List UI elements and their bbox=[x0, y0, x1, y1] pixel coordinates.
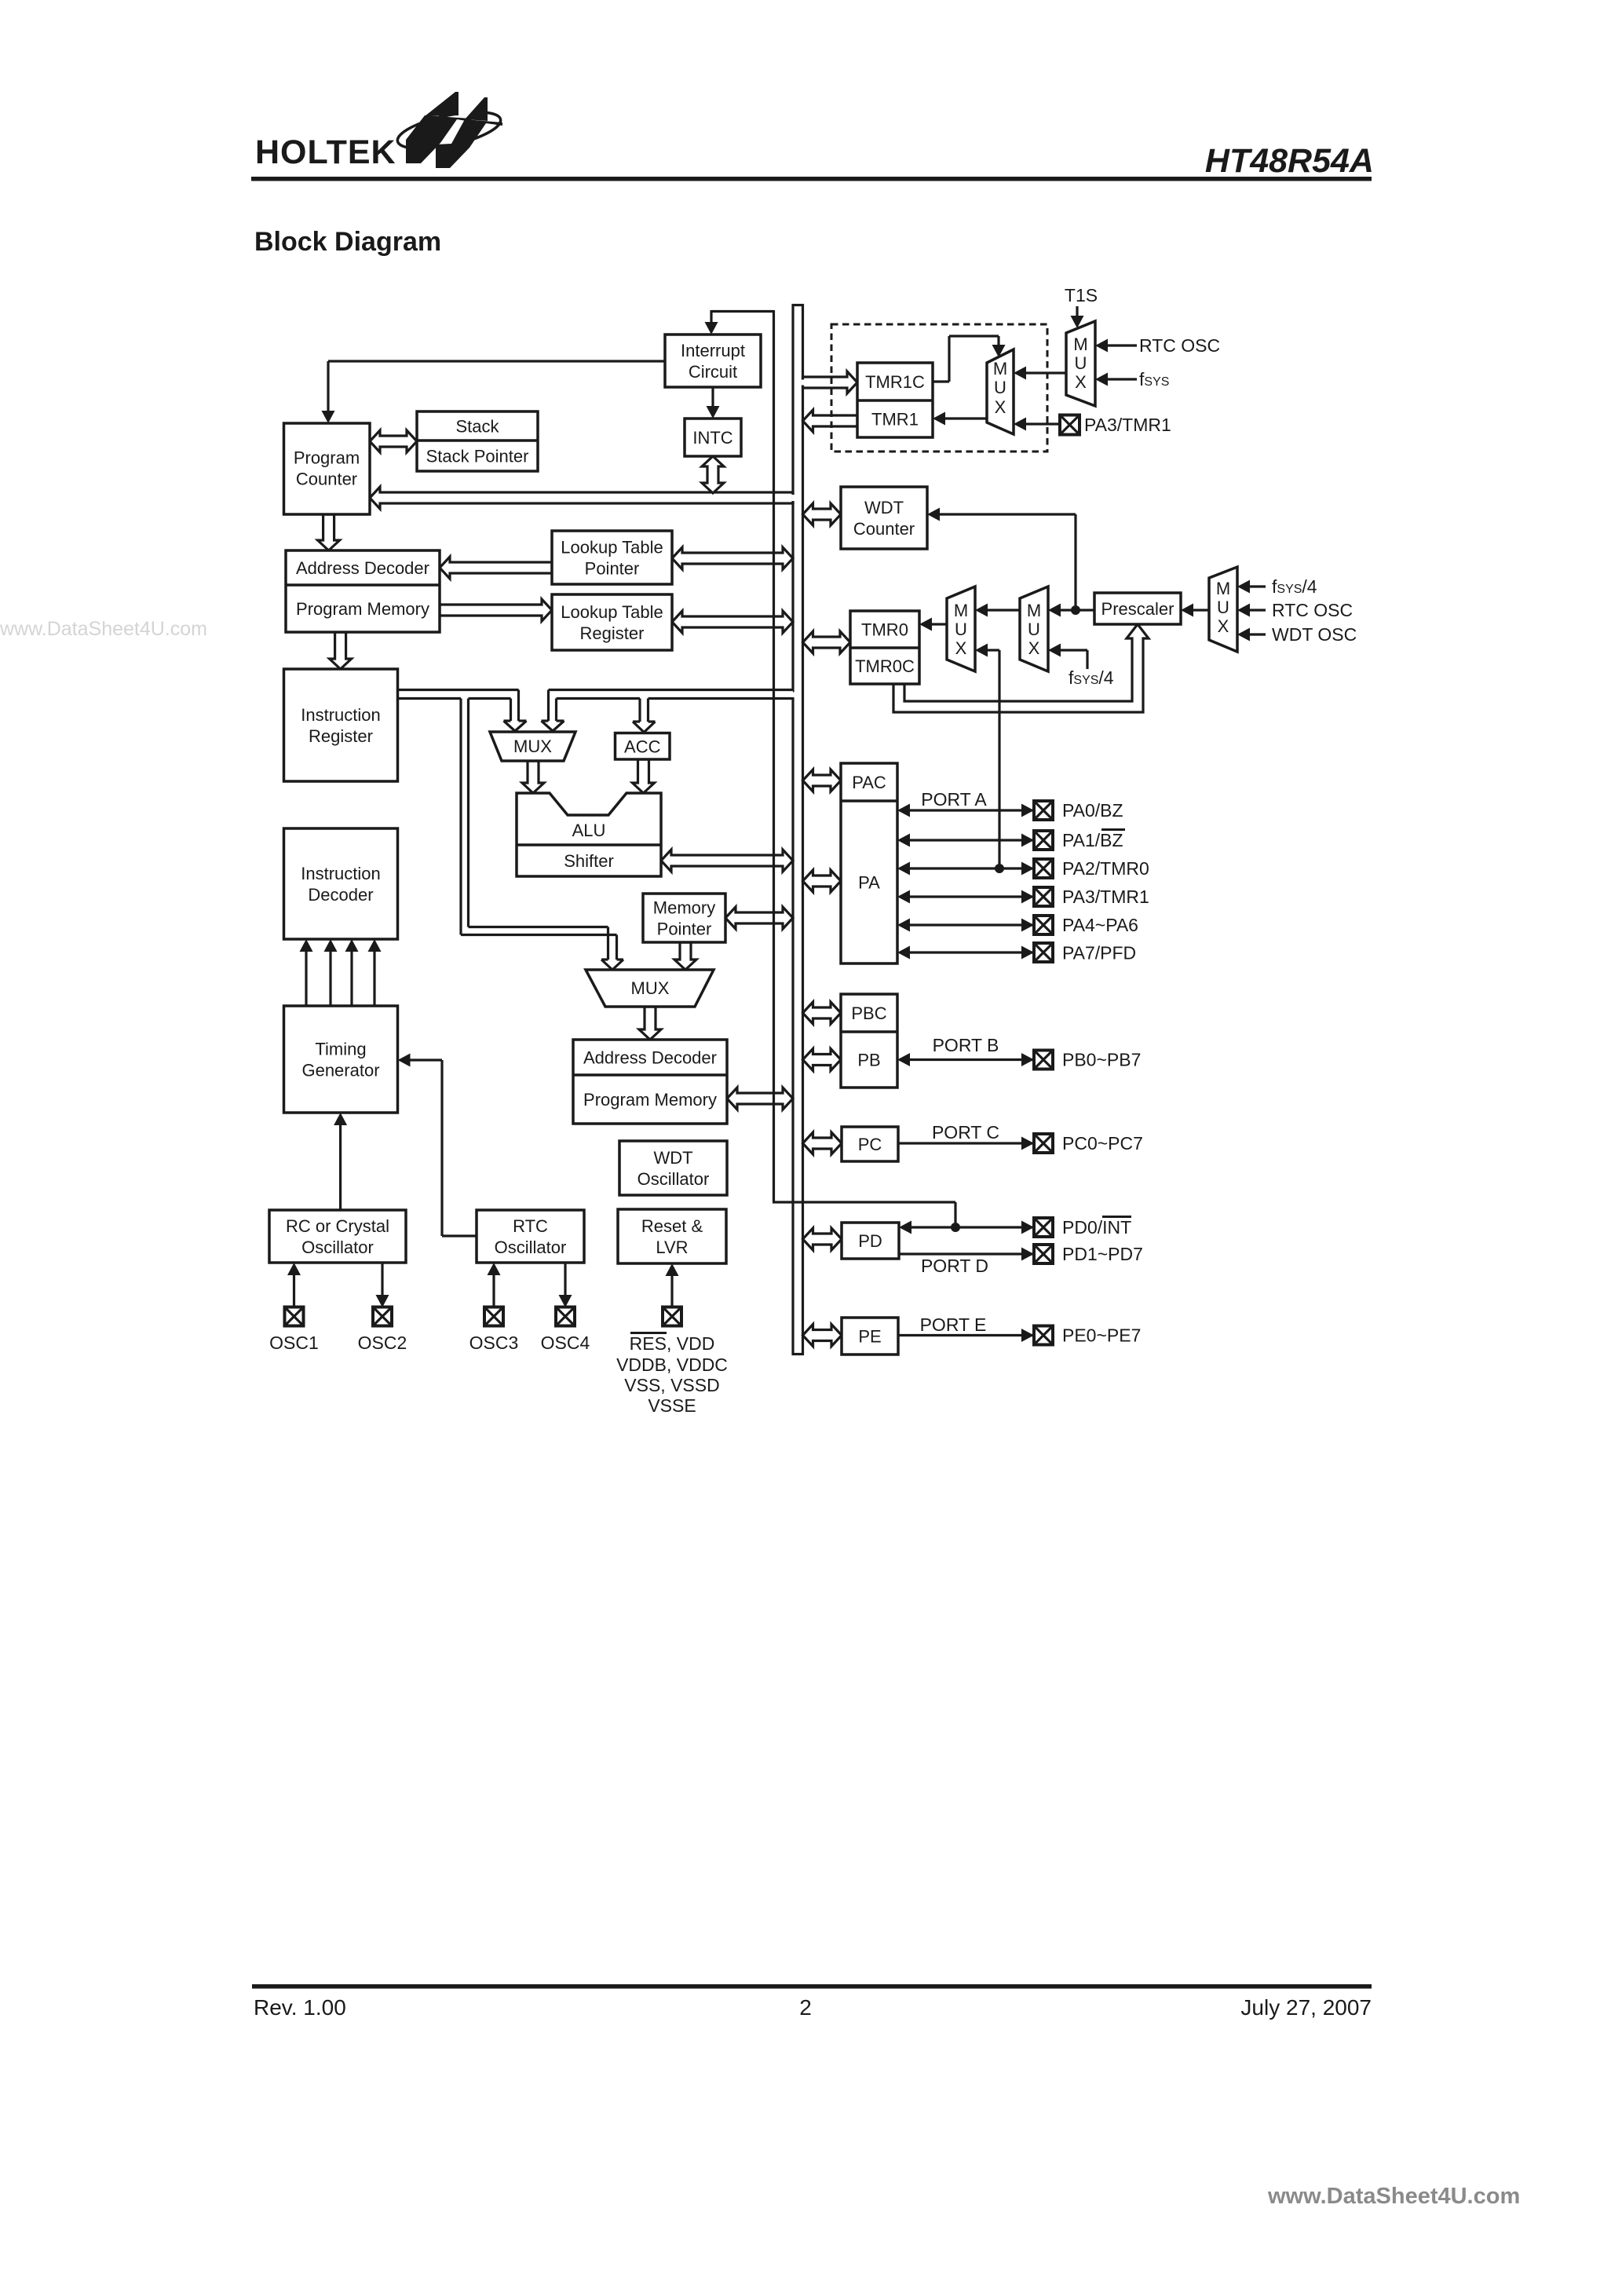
svg-text:PB: PB bbox=[857, 1051, 880, 1070]
junction dot prescaler output bbox=[1071, 605, 1080, 615]
svg-text:PD0/INT: PD0/INT bbox=[1062, 1217, 1131, 1238]
block RTC Oscillator bbox=[477, 1210, 584, 1263]
bus wire TMR1 to bus bbox=[803, 410, 858, 432]
svg-text:Program Memory: Program Memory bbox=[583, 1090, 717, 1110]
svg-text:PA1/BZ: PA1/BZ bbox=[1062, 830, 1123, 850]
wire interrupt circuit to INTC bbox=[711, 387, 714, 407]
svg-text:M: M bbox=[1073, 335, 1087, 354]
wire RTC oscillator to timing generator bbox=[442, 1234, 477, 1237]
svg-text:HT48R54A: HT48R54A bbox=[1205, 142, 1374, 180]
wire TMR1C to MUX input bbox=[933, 380, 949, 382]
wire line A to PD junction bbox=[773, 1201, 955, 1203]
bus wire bus to WDT Counter bbox=[803, 503, 842, 525]
block ACC bbox=[616, 733, 670, 760]
pad OSC1 bbox=[285, 1307, 304, 1326]
svg-text:PORT D: PORT D bbox=[921, 1256, 988, 1276]
svg-text:RTC: RTC bbox=[513, 1216, 548, 1236]
block TMR0 and TMR0C bbox=[850, 611, 919, 684]
svg-text:OSC4: OSC4 bbox=[541, 1333, 590, 1353]
bus wire Lookup Table Register to bus bbox=[672, 611, 793, 633]
svg-text:Lookup Table: Lookup Table bbox=[561, 602, 663, 622]
svg-text:WDT OSC: WDT OSC bbox=[1272, 624, 1357, 645]
wire RTC OSC to T1S MUX bbox=[1107, 344, 1137, 346]
svg-text:RTC OSC: RTC OSC bbox=[1272, 600, 1353, 620]
bus wire Program Counter to Stack bbox=[370, 430, 417, 452]
block WDT Oscillator bbox=[619, 1141, 727, 1195]
block Lookup Table Pointer bbox=[552, 531, 672, 584]
label RES VDD power pins bbox=[616, 1333, 728, 1417]
block Interrupt Circuit bbox=[665, 335, 761, 387]
block Address Decoder and Program Memory bbox=[286, 550, 440, 632]
wire PA3 pad to MUX bbox=[1025, 422, 1060, 425]
svg-text:MUX: MUX bbox=[513, 737, 552, 756]
svg-text:2: 2 bbox=[799, 1995, 812, 2020]
bus wire bus to PB bbox=[803, 1049, 842, 1071]
mux MUX top data path bbox=[490, 732, 575, 761]
block WDT Counter bbox=[841, 487, 927, 549]
bus line openings at wire joints bbox=[791, 495, 795, 501]
svg-text:PB0~PB7: PB0~PB7 bbox=[1062, 1050, 1141, 1070]
bus wire MUX to ALU bbox=[522, 761, 544, 793]
svg-text:TMR1C: TMR1C bbox=[865, 372, 925, 392]
svg-text:www.DataSheet4U.com: www.DataSheet4U.com bbox=[1267, 2184, 1520, 2209]
wire PD1 pins bbox=[899, 1252, 1035, 1255]
bus wire Program Memory to Instruction Register bbox=[330, 632, 352, 669]
pad PA2 port A bbox=[1034, 859, 1053, 878]
svg-text:PA3/TMR1: PA3/TMR1 bbox=[1062, 887, 1149, 907]
svg-text:TMR0: TMR0 bbox=[861, 620, 908, 640]
mux MUX C clock select bbox=[1209, 567, 1237, 652]
wire PORT E pins bbox=[898, 1334, 1035, 1336]
block Reset and LVR bbox=[618, 1209, 726, 1263]
wire fSYS/4 to MUX B bbox=[1086, 650, 1088, 669]
block PBC and PB bbox=[841, 994, 897, 1088]
svg-text:Reset &: Reset & bbox=[641, 1216, 703, 1236]
svg-text:Shifter: Shifter bbox=[564, 851, 614, 871]
wires timing generator to instruction decoder bbox=[300, 939, 382, 1006]
bus wire Memory Pointer to MUX bbox=[674, 942, 696, 970]
wire line A vertical bbox=[773, 310, 775, 1202]
bus wire Lookup Table Pointer to bus bbox=[672, 547, 793, 569]
pad PA3 port A bbox=[1034, 887, 1053, 906]
svg-text:Prescaler: Prescaler bbox=[1101, 599, 1174, 619]
svg-text:fSYS/4: fSYS/4 bbox=[1069, 667, 1114, 688]
block PC bbox=[842, 1127, 898, 1161]
svg-text:PBC: PBC bbox=[851, 1004, 886, 1023]
svg-text:www.DataSheet4U.com: www.DataSheet4U.com bbox=[0, 618, 207, 640]
svg-text:Address Decoder: Address Decoder bbox=[296, 558, 429, 578]
svg-text:T1S: T1S bbox=[1065, 285, 1098, 305]
junction dot PD0 bbox=[951, 1223, 960, 1232]
block RC or Crystal Oscillator bbox=[269, 1210, 406, 1263]
bus wire bus to PAC bbox=[803, 770, 842, 792]
bus wire bus to PA bbox=[803, 870, 842, 892]
svg-text:M: M bbox=[954, 601, 968, 620]
svg-text:Pointer: Pointer bbox=[657, 919, 712, 939]
block ALU and Shifter bbox=[517, 793, 661, 876]
block Address Decoder 2 and Program Memory 2 bbox=[573, 1040, 727, 1124]
svg-text:M: M bbox=[1216, 579, 1230, 598]
svg-text:RC or Crystal: RC or Crystal bbox=[286, 1216, 389, 1236]
wire MUX B to MUX A bbox=[987, 609, 1020, 611]
wire fSYS/4 to MUX C bbox=[1249, 585, 1266, 587]
pad PA0 port A bbox=[1034, 801, 1053, 820]
block Prescaler bbox=[1094, 593, 1181, 624]
svg-text:Stack: Stack bbox=[455, 417, 499, 437]
svg-text:X: X bbox=[1218, 616, 1229, 636]
wire PORT B pins bbox=[909, 1058, 1035, 1061]
wires PORT A pins bbox=[897, 804, 1035, 960]
bus wire bus to PC bbox=[803, 1132, 842, 1154]
svg-text:fSYS: fSYS bbox=[1139, 369, 1169, 389]
svg-text:MUX: MUX bbox=[631, 978, 670, 998]
bus wire MUX to Address Decoder 2 bbox=[639, 1007, 661, 1040]
block Program Counter bbox=[284, 423, 371, 514]
system bus left line bbox=[791, 304, 794, 1355]
bus wire Program Memory to Lookup Table Register bbox=[440, 599, 552, 621]
block PD bbox=[842, 1223, 899, 1259]
svg-text:Address Decoder: Address Decoder bbox=[583, 1048, 717, 1068]
wire MUX C to Prescaler bbox=[1193, 609, 1209, 611]
svg-text:M: M bbox=[1027, 601, 1041, 620]
svg-text:PA2/TMR0: PA2/TMR0 bbox=[1062, 858, 1149, 879]
pad OSC3 bbox=[484, 1307, 503, 1326]
bus wire Instruction Register output bbox=[398, 689, 624, 970]
wire MUX to TMR1 bbox=[944, 417, 987, 419]
block PE bbox=[842, 1318, 898, 1355]
svg-text:ALU: ALU bbox=[572, 821, 606, 840]
bus wire from bus to Program Counter bbox=[370, 487, 793, 509]
svg-text:VSS, VSSD: VSS, VSSD bbox=[624, 1375, 719, 1395]
svg-text:RES, VDD: RES, VDD bbox=[630, 1333, 715, 1354]
junction dot PA2 bbox=[995, 864, 1004, 873]
bus wire bus to TMR1C bbox=[803, 371, 858, 393]
svg-text:Instruction: Instruction bbox=[301, 864, 381, 883]
mux MUX big address path bbox=[586, 970, 714, 1007]
bus wire ACC to ALU bbox=[633, 759, 655, 793]
svg-text:PORT C: PORT C bbox=[932, 1122, 999, 1143]
bus wire Program Memory 2 to bus bbox=[727, 1088, 793, 1110]
svg-text:Oscillator: Oscillator bbox=[495, 1238, 567, 1257]
svg-text:PD1~PD7: PD1~PD7 bbox=[1062, 1244, 1143, 1264]
bus wire bus to TMR0 bbox=[803, 631, 851, 653]
svg-text:RTC OSC: RTC OSC bbox=[1139, 335, 1220, 356]
wire PA2 junction to MUX A bbox=[998, 650, 1000, 868]
svg-text:Register: Register bbox=[580, 623, 645, 643]
footer rule bbox=[252, 1984, 1372, 1989]
svg-text:PC0~PC7: PC0~PC7 bbox=[1062, 1133, 1143, 1153]
svg-text:Memory: Memory bbox=[653, 898, 715, 918]
svg-text:PA0/BZ: PA0/BZ bbox=[1062, 800, 1123, 821]
svg-text:Program Memory: Program Memory bbox=[296, 599, 429, 619]
pad PE0~PE7 bbox=[1034, 1326, 1053, 1345]
svg-text:INTC: INTC bbox=[692, 428, 732, 448]
pad PA4 port A bbox=[1034, 916, 1053, 934]
pad PB0~PB7 bbox=[1034, 1051, 1053, 1069]
bus wire from bus to MUX and ACC bbox=[542, 689, 794, 733]
svg-text:U: U bbox=[1028, 620, 1040, 639]
wire OSC1 to RC oscillator bbox=[293, 1274, 295, 1307]
wire MUX A to TMR0 bbox=[931, 623, 947, 625]
svg-text:TMR0C: TMR0C bbox=[855, 656, 915, 676]
bus wire bus to PBC bbox=[803, 1002, 842, 1024]
svg-text:PORT E: PORT E bbox=[920, 1314, 987, 1335]
block TMR1C and TMR1 bbox=[857, 363, 933, 437]
wire Prescaler to MUX B bbox=[1060, 609, 1094, 611]
svg-text:OSC2: OSC2 bbox=[358, 1333, 407, 1353]
wire T1S input bbox=[1076, 306, 1078, 316]
block Instruction Register bbox=[284, 669, 398, 781]
svg-text:Lookup Table: Lookup Table bbox=[561, 538, 663, 558]
svg-text:OSC1: OSC1 bbox=[269, 1333, 319, 1353]
bus wire Memory Pointer to bus bbox=[725, 907, 793, 929]
pad OSC4 bbox=[556, 1307, 575, 1326]
svg-text:PE0~PE7: PE0~PE7 bbox=[1062, 1325, 1141, 1346]
pad PD0 bbox=[1034, 1218, 1053, 1237]
svg-text:Decoder: Decoder bbox=[308, 885, 373, 905]
pad RES bbox=[663, 1307, 681, 1326]
bus wire Shifter to bus bbox=[661, 850, 793, 872]
svg-text:fSYS/4: fSYS/4 bbox=[1272, 576, 1317, 597]
svg-text:July 27, 2007: July 27, 2007 bbox=[1240, 1995, 1372, 2020]
svg-text:Counter: Counter bbox=[296, 470, 357, 489]
block PAC and PA bbox=[841, 763, 897, 963]
svg-text:Stack Pointer: Stack Pointer bbox=[426, 447, 529, 466]
system bus right line bbox=[802, 304, 804, 1355]
block INTC bbox=[685, 419, 741, 456]
svg-text:Instruction: Instruction bbox=[301, 705, 381, 725]
pad PC0~PC7 bbox=[1034, 1134, 1053, 1153]
svg-text:PD: PD bbox=[858, 1231, 882, 1251]
svg-text:Oscillator: Oscillator bbox=[301, 1238, 374, 1257]
header rule bbox=[251, 177, 1372, 181]
svg-text:TMR1: TMR1 bbox=[871, 410, 919, 430]
svg-text:U: U bbox=[1217, 598, 1229, 617]
svg-text:LVR: LVR bbox=[656, 1238, 688, 1257]
pad PA1 port A bbox=[1034, 831, 1053, 850]
block Stack and Stack Pointer bbox=[417, 411, 538, 471]
block Timing Generator bbox=[284, 1006, 398, 1113]
svg-text:Rev. 1.00: Rev. 1.00 bbox=[254, 1995, 346, 2020]
pad OSC2 bbox=[373, 1307, 392, 1326]
svg-text:PA7/PFD: PA7/PFD bbox=[1062, 943, 1136, 963]
bus wire bus to PE bbox=[803, 1325, 842, 1347]
wire RTC OSC to MUX C bbox=[1249, 609, 1266, 611]
svg-text:Pointer: Pointer bbox=[585, 559, 640, 579]
wire interrupt circuit top loop bbox=[710, 310, 712, 323]
system bus top cap bbox=[792, 304, 805, 306]
mux MUX T1S select bbox=[1066, 321, 1095, 406]
block Instruction Decoder bbox=[284, 828, 398, 939]
svg-text:PORT B: PORT B bbox=[933, 1035, 999, 1055]
mux MUX timer1 input bbox=[987, 349, 1014, 434]
svg-text:PC: PC bbox=[858, 1135, 882, 1154]
HOLTEK logo bbox=[255, 89, 503, 171]
wire interrupt circuit to program counter bbox=[328, 360, 665, 362]
bus wire Lookup Table Pointer to Address Decoder bbox=[440, 557, 552, 579]
block Lookup Table Register bbox=[552, 594, 672, 650]
svg-text:PA4~PA6: PA4~PA6 bbox=[1062, 915, 1138, 935]
bus wire INTC vertical bbox=[702, 456, 724, 493]
wire RTC oscillator to OSC4 bbox=[564, 1263, 566, 1296]
wire PD0 pin bbox=[911, 1226, 1035, 1228]
svg-text:Counter: Counter bbox=[853, 519, 915, 539]
pad PA3/TMR1 bbox=[1060, 415, 1080, 435]
svg-text:X: X bbox=[955, 638, 967, 658]
svg-text:U: U bbox=[955, 620, 967, 639]
block Memory Pointer bbox=[643, 894, 725, 942]
bus wire Program Counter to Address Decoder bbox=[318, 514, 340, 550]
mux MUX A timer0 input bbox=[947, 587, 975, 671]
svg-text:PA3/TMR1: PA3/TMR1 bbox=[1084, 415, 1171, 435]
svg-text:OSC3: OSC3 bbox=[469, 1333, 519, 1353]
svg-text:VDDB, VDDC: VDDB, VDDC bbox=[616, 1355, 728, 1375]
svg-text:Program: Program bbox=[294, 448, 360, 468]
pad PD1~PD7 bbox=[1034, 1245, 1053, 1263]
svg-text:PE: PE bbox=[858, 1327, 881, 1347]
system bus bottom cap bbox=[792, 1353, 805, 1355]
svg-text:PAC: PAC bbox=[852, 773, 886, 792]
svg-text:X: X bbox=[1075, 372, 1087, 392]
wire RC oscillator to timing generator bbox=[339, 1124, 342, 1210]
svg-text:U: U bbox=[994, 378, 1006, 397]
svg-text:Oscillator: Oscillator bbox=[637, 1169, 710, 1189]
svg-text:ACC: ACC bbox=[624, 737, 661, 756]
wire PORT C pins bbox=[898, 1142, 1035, 1144]
wire OSC3 to RTC oscillator bbox=[492, 1274, 495, 1307]
svg-text:PORT A: PORT A bbox=[921, 789, 987, 810]
svg-text:Generator: Generator bbox=[301, 1061, 379, 1080]
bus wire TMR0C to Prescaler bbox=[893, 624, 1149, 712]
wire fSYS to T1S MUX bbox=[1107, 378, 1137, 380]
bus wire bus to PD bbox=[803, 1228, 842, 1250]
svg-text:M: M bbox=[993, 359, 1007, 378]
svg-text:WDT: WDT bbox=[653, 1148, 692, 1168]
wire RC oscillator to OSC2 bbox=[381, 1263, 383, 1296]
wire prescaler output to WDT counter bbox=[1074, 514, 1076, 610]
dashed box timer 1 module bbox=[831, 324, 1047, 452]
pad PA7 port A bbox=[1034, 943, 1053, 962]
svg-text:X: X bbox=[995, 397, 1006, 417]
svg-text:Timing: Timing bbox=[315, 1040, 366, 1059]
svg-text:HOLTEK: HOLTEK bbox=[255, 133, 396, 171]
svg-text:WDT: WDT bbox=[864, 498, 904, 517]
svg-text:PA: PA bbox=[858, 873, 880, 893]
svg-text:Block Diagram: Block Diagram bbox=[254, 227, 441, 257]
svg-text:Circuit: Circuit bbox=[689, 362, 737, 382]
wire WDT OSC to MUX C bbox=[1249, 633, 1266, 635]
svg-text:Register: Register bbox=[309, 726, 373, 746]
mux MUX B prescaler select bbox=[1020, 587, 1048, 671]
wire RES pad to reset block bbox=[670, 1275, 673, 1307]
svg-text:Interrupt: Interrupt bbox=[681, 341, 745, 360]
svg-text:X: X bbox=[1028, 638, 1040, 658]
wire T1S MUX output to MUX bbox=[1025, 371, 1066, 374]
svg-text:VSSE: VSSE bbox=[648, 1395, 696, 1416]
svg-text:U: U bbox=[1075, 353, 1087, 373]
